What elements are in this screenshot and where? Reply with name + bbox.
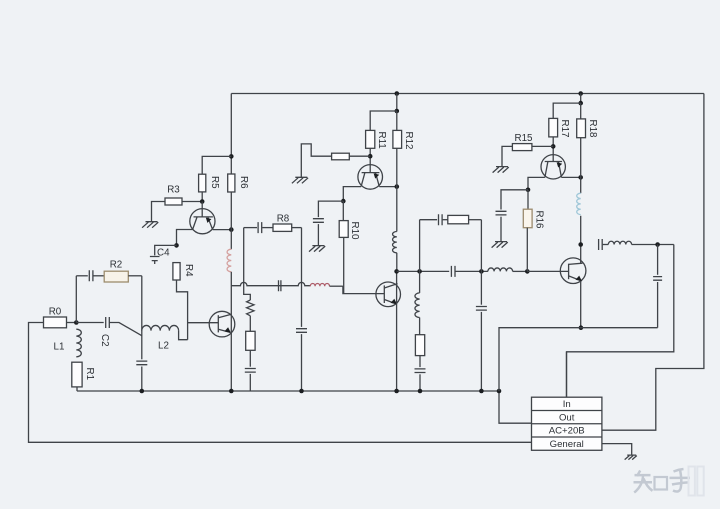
wire R16 down to Q6 base line	[526, 228, 528, 272]
wire In from output	[566, 352, 568, 397]
inductor L2	[142, 325, 179, 351]
capacitor C15 (output shunt)	[653, 277, 662, 281]
wire input node to C2	[76, 322, 103, 324]
wire C13 to ground	[500, 217, 502, 242]
svg-text:In: In	[563, 399, 571, 410]
wire R2 loop top left	[76, 275, 88, 277]
capacitor C13	[496, 211, 507, 215]
wire R2 loop left edge	[75, 276, 77, 323]
wire output to In terminal	[567, 245, 674, 398]
svg-text:R18: R18	[587, 120, 598, 139]
inductor L3	[488, 268, 513, 271]
wire L2 step to base line	[179, 331, 188, 340]
svg-text:R15: R15	[515, 133, 534, 144]
svg-text:L2: L2	[158, 341, 169, 352]
node Q1 base	[200, 199, 205, 204]
svg-text:R10: R10	[349, 222, 360, 241]
node rail right end	[497, 389, 502, 394]
node rail-R18	[578, 91, 583, 96]
wire RZ1 to RB1	[249, 316, 251, 332]
node rail-C7	[299, 389, 304, 394]
svg-text:General: General	[550, 439, 584, 450]
capacitor C2	[99, 317, 110, 347]
capacitor C5 (to rail)	[245, 369, 256, 373]
wire C1 to R2	[93, 275, 104, 277]
wire outer input/general loop	[29, 323, 532, 443]
resistor RB3 (unlabeled)	[448, 215, 469, 223]
wire R17 to Q5 base	[552, 137, 554, 162]
wire C8 to ground	[317, 224, 319, 245]
resistor R18	[577, 119, 598, 138]
resistor R5	[199, 174, 220, 192]
wire L3 to R16 node	[513, 270, 528, 272]
resistor RB4 (unlabeled)	[415, 335, 424, 356]
wire C3 to rail	[141, 367, 143, 392]
capacitor C4	[150, 248, 170, 265]
node Q2 emitter rail	[229, 389, 234, 394]
resistor R15	[512, 133, 533, 151]
resistor R0	[44, 307, 67, 328]
node R11-RB2	[368, 154, 373, 159]
wire loop2 top left	[420, 219, 438, 221]
resistor R17	[549, 118, 570, 137]
inductor L1	[54, 329, 82, 357]
wire output shunt leg	[657, 245, 659, 275]
wire Q4 right lead	[379, 186, 397, 188]
wire R6 line to coil	[230, 192, 232, 249]
node R17/R18 split	[578, 101, 583, 106]
wire Q5 left lead	[528, 177, 545, 189]
node R16 foot	[525, 269, 530, 274]
resistor RB2 (unlabeled)	[332, 153, 350, 160]
wire R3 to base node	[182, 201, 202, 203]
inductor LR1 (red)	[310, 284, 329, 287]
node R11/R12 split	[395, 109, 400, 114]
wire RB2 to node	[349, 155, 370, 157]
wire LV1 to Q3 collector node	[396, 253, 398, 272]
svg-text:R0: R0	[49, 307, 62, 318]
svg-text:R1: R1	[84, 368, 95, 381]
wire +20V top rail	[231, 93, 704, 95]
svg-text:R6: R6	[238, 176, 249, 189]
transistor Q5	[541, 155, 565, 179]
wire General to ground	[602, 444, 632, 455]
node Q3 emitter rail	[394, 389, 399, 394]
svg-text:R5: R5	[209, 176, 220, 189]
inductor LV2	[415, 293, 420, 318]
wire C6 to R8	[262, 227, 273, 229]
svg-text:R4: R4	[183, 264, 194, 277]
svg-text:R8: R8	[277, 214, 290, 225]
ground G1 (R3)	[142, 222, 158, 228]
svg-text:R12: R12	[403, 132, 414, 150]
resistor R8	[273, 214, 292, 232]
resistor R1	[72, 362, 95, 387]
ground G5 (C13)	[492, 242, 508, 248]
node Q6 emitter bus	[579, 325, 584, 330]
inductor LV1 (Q3 collector)	[393, 232, 397, 253]
wire RB1 to C5	[249, 350, 251, 366]
node output corner	[655, 242, 660, 247]
resistor RB1 (unlabeled)	[246, 331, 255, 350]
wire C15 to emitter bus	[657, 282, 659, 328]
wire RB3 to loop2 right edge	[469, 219, 482, 221]
wire R1 to rail	[76, 387, 78, 391]
node rail-C11	[418, 389, 423, 394]
transistor Q1	[190, 209, 215, 234]
wire RB4 to C11	[419, 356, 421, 368]
wire R4 bottom to L2/base riser	[177, 280, 188, 340]
wire Q6 emitter line	[580, 281, 582, 328]
wire loop2 left edge	[419, 220, 421, 272]
node Q3 collector	[394, 269, 399, 274]
capacitor C11 (to rail)	[415, 369, 426, 373]
resistor R4	[173, 263, 194, 280]
wire node to C8	[318, 201, 343, 217]
inductor LV3 (blue)	[577, 193, 581, 214]
wire R8 loop top left	[244, 227, 257, 229]
wire LV2 to RB4	[419, 318, 421, 335]
node loop2 right	[479, 269, 484, 274]
ground G2 (Q4 bias)	[292, 177, 308, 183]
transistor Q4	[358, 165, 383, 190]
node Q4-R12 line	[395, 184, 400, 189]
capacitor C1 (series with R2)	[89, 270, 93, 281]
svg-text:C2: C2	[99, 334, 110, 347]
wire node to R10	[342, 201, 344, 221]
wire loop2 right edge	[480, 220, 482, 272]
wire R6 line down to rail	[230, 272, 232, 391]
transistor Q6	[560, 258, 586, 284]
capacitor C12 (to rail)	[476, 307, 487, 311]
node Q5 bias	[526, 188, 531, 193]
wire R15 to node	[532, 145, 553, 147]
transistor Q3	[376, 282, 401, 307]
wire Q1 left lead	[177, 230, 193, 246]
svg-text:R17: R17	[559, 120, 570, 138]
svg-text:R2: R2	[110, 260, 123, 271]
wire LV3 to output node	[580, 216, 582, 245]
node Q1-R6 line	[229, 227, 234, 232]
capacitor C8	[313, 219, 324, 223]
wire to Q6 base	[527, 270, 568, 272]
node Q4 bias	[341, 199, 346, 204]
wire loop2 left chain down	[419, 271, 421, 293]
wire to R18	[580, 103, 582, 119]
wire C2 diagonal to L2 node	[109, 323, 141, 336]
wire C10 to RB3	[443, 219, 448, 221]
wire R8 loop right edge down	[301, 228, 303, 327]
wire R2 loop right edge down	[141, 276, 143, 360]
resistor RZ1 (zigzag, unlabeled)	[247, 300, 254, 316]
wire C9 to loop2 right	[456, 270, 488, 272]
resistor R12	[393, 130, 414, 149]
wire loop2 right chain down	[480, 271, 482, 304]
wire right supply drop (rail to AC+20B)	[602, 94, 704, 431]
wire R11 to Q4 base	[369, 148, 371, 172]
wire C7 to rail	[301, 334, 303, 391]
svg-text:L1: L1	[54, 342, 65, 353]
wire R10 down to Q3 base line	[343, 237, 345, 293]
wire RB2 to ground	[301, 144, 331, 177]
node output tap	[578, 242, 583, 247]
wire riser to Q3 base	[343, 286, 384, 293]
resistor R10	[339, 221, 360, 240]
wire LR1 to R10 riser	[330, 285, 343, 287]
wire to R11	[370, 111, 397, 130]
wire R12 down	[396, 148, 398, 231]
node rail-C3	[140, 389, 145, 394]
node Q5-R18 line	[578, 175, 583, 180]
wire R5 to Q1 base node	[201, 192, 203, 202]
wire emitter bus	[499, 328, 658, 391]
capacitor C3 (to ground rail)	[136, 361, 147, 365]
node rail-C12	[479, 389, 484, 394]
svg-text:R3: R3	[167, 185, 180, 196]
svg-text:R11: R11	[376, 132, 387, 149]
wire rail to Out terminal	[499, 391, 532, 423]
wire C12 to rail	[480, 312, 482, 391]
wire base of Q2	[188, 322, 219, 324]
wire C11 to rail	[419, 374, 421, 391]
wire R5 top	[202, 156, 231, 174]
resistor R2	[104, 260, 128, 283]
wire Q1 base	[201, 202, 203, 217]
capacitor C6 (series with R8)	[258, 222, 262, 233]
wire to R17	[553, 103, 581, 118]
wire to C4	[155, 245, 177, 255]
wire C5 to rail	[249, 374, 251, 391]
wire rail stub	[396, 94, 398, 112]
ground G6 (General)	[625, 455, 637, 460]
wire Q4 left lead	[343, 187, 361, 202]
wire node to R16	[527, 190, 529, 209]
wire R15 to ground	[502, 146, 512, 166]
svg-text:Out: Out	[559, 412, 575, 423]
wire ground to R3	[152, 202, 166, 222]
wire R18 down	[580, 138, 582, 194]
inductor LV4 (pink, Q1 collector line)	[227, 249, 231, 272]
wire L4 to output corner	[632, 244, 674, 246]
node loop2 left	[417, 269, 422, 274]
wire output cap to L4	[603, 244, 609, 246]
capacitor C10 (series)	[439, 214, 443, 225]
node input A	[74, 320, 79, 325]
wire Q2 collector feed with hops	[231, 280, 310, 291]
wire Q1 right lead	[213, 229, 232, 231]
resistor R3	[165, 185, 182, 206]
ground G3 (C8)	[309, 246, 325, 252]
ground G4 (R15)	[493, 167, 509, 173]
capacitor C7 (to rail)	[296, 329, 307, 333]
resistor R6	[228, 174, 249, 192]
capacitor C9 (series)	[451, 266, 455, 277]
resistor R16	[523, 209, 544, 229]
svg-text:AC+20B: AC+20B	[549, 426, 585, 437]
wire node to C13	[501, 190, 528, 210]
connector J1 (In/Out/AC+20B/General)	[532, 397, 602, 450]
watermark zhihu logo	[634, 467, 704, 496]
capacitor C14 (series output)	[599, 239, 603, 250]
resistor R11	[366, 130, 387, 148]
transistor Q2	[209, 311, 235, 337]
wire R6 rail drop	[230, 94, 232, 175]
svg-text:C4: C4	[157, 248, 170, 259]
wire Q6 collector line	[580, 245, 582, 264]
node R17-R15	[551, 144, 556, 149]
node R5/R6 tie	[229, 154, 234, 159]
svg-text:R16: R16	[534, 211, 545, 230]
node rail-R12	[395, 91, 400, 96]
wire R2 to right edge	[128, 275, 142, 277]
inductor L4	[608, 241, 631, 244]
wire Q3 collector/emitter line	[396, 271, 398, 391]
wire R0 to input node	[67, 322, 77, 324]
wire Q5 right lead	[561, 176, 580, 178]
node C4/R4	[174, 243, 179, 248]
wire Q3 collector bus	[397, 270, 450, 272]
wire bottom ground rail	[77, 390, 499, 392]
wire R8 loop left edge	[244, 228, 251, 300]
wire rail stub right	[580, 94, 582, 104]
wire to R12	[396, 111, 398, 130]
wire R8 to loop right edge	[292, 227, 302, 229]
